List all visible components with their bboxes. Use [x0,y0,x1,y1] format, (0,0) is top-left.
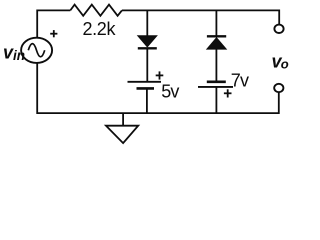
battery B2 7v (short plate up) [198,82,233,87]
wire: battery B1 to bottom rail [146,88,148,113]
value label 7v [231,71,249,91]
wire: battery B2 to bottom rail [215,87,217,113]
ground [106,113,138,143]
source label vin [3,42,25,63]
wire: branch 1 from top rail to diode D1 [146,10,148,36]
svg-text:2.2k: 2.2k [83,19,117,39]
value label 2.2k [83,19,117,39]
node: output terminal top (open circle) [274,25,283,33]
polarity plus of battery B1 [156,71,164,79]
svg-text:in: in [13,48,25,63]
diode D1 (cathode down) [138,36,157,49]
polarity plus of source vin [50,30,57,37]
svg-text:7v: 7v [231,71,249,91]
wire: branch 2 from top rail to diode D2 [215,10,217,36]
node label vo [272,52,289,72]
wire: diode D1 to battery B1 [146,48,148,81]
wire: top rail from source corner to resistor [37,10,70,38]
wire: bottom rail from output terminal to source [37,62,279,113]
resistor R1 zigzag [70,5,122,16]
svg-text:o: o [281,57,289,72]
polarity plus of battery B2 [224,89,232,97]
wire: diode D2 to battery B2 [215,49,217,81]
value label 5v [161,82,179,102]
battery B1 5v (long plate up) [128,82,162,89]
source vin (AC sine source) [21,38,52,63]
diode D2 (cathode up) [207,36,226,49]
node: output terminal bottom (open circle) [274,84,283,92]
svg-text:5v: 5v [161,82,179,102]
wire: top rail from resistor to output corner [122,10,279,24]
